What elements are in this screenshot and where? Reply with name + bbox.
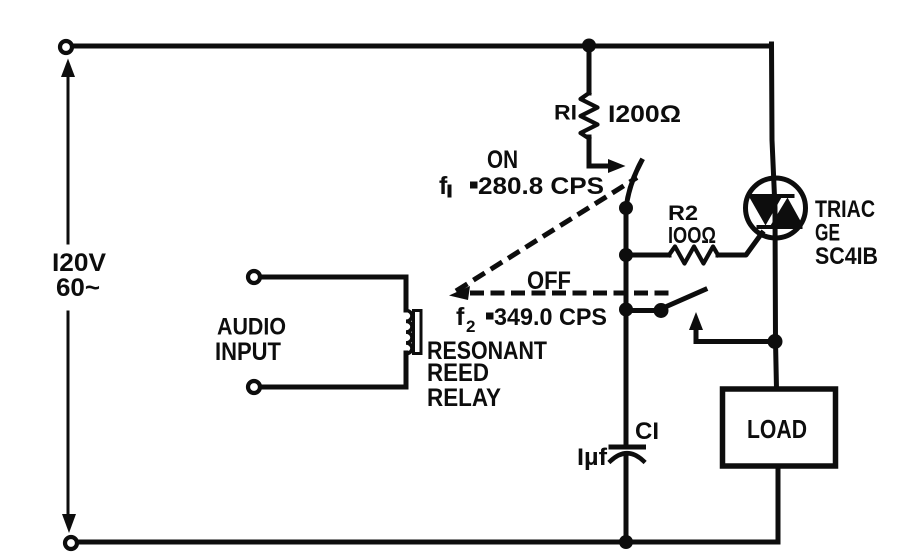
svg-text:AUDIO: AUDIO (217, 314, 286, 341)
svg-text:SC4IB: SC4IB (815, 243, 878, 270)
svg-text:CI: CI (635, 418, 659, 445)
svg-text:LOAD: LOAD (747, 414, 807, 444)
svg-text:RI: RI (554, 102, 577, 125)
svg-text:280.8 CPS: 280.8 CPS (478, 173, 604, 200)
svg-text:ON: ON (487, 146, 518, 174)
svg-text:f: f (439, 172, 448, 200)
svg-text:Iµf: Iµf (577, 444, 608, 471)
svg-text:349.0 CPS: 349.0 CPS (494, 304, 607, 331)
svg-text:IOOΩ: IOOΩ (668, 222, 716, 248)
svg-text:I20V: I20V (52, 249, 106, 277)
svg-text:INPUT: INPUT (215, 338, 281, 366)
svg-text:f: f (456, 303, 465, 331)
svg-text:60~: 60~ (56, 274, 100, 302)
svg-text:RELAY: RELAY (427, 384, 501, 412)
svg-text:REED: REED (427, 359, 489, 387)
svg-text:I200Ω: I200Ω (608, 101, 681, 128)
svg-text:2: 2 (466, 317, 475, 336)
svg-text:OFF: OFF (527, 267, 571, 295)
